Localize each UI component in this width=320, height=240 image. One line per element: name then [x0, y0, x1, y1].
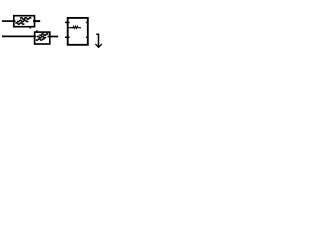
reactor L1 wave 1: [39, 34, 48, 36]
filter F1 wave 2: [17, 20, 28, 22]
wire from reactor output: [48, 36, 59, 38]
resistor R1 zigzag: [73, 26, 79, 28]
resistor R1 lead right: [78, 27, 81, 29]
reactor L1 wave 2: [37, 36, 46, 38]
reactor L1 box: [35, 32, 50, 44]
wire bottom input L: [2, 35, 36, 37]
pin tick top-right inside U1: [86, 21, 88, 23]
pin tick bottom-left of U1: [65, 36, 70, 38]
pin stub below F1 bottom edge: [29, 26, 31, 28]
reactor L1 wave 3: [36, 39, 44, 41]
filter F1 wave 1: [20, 18, 31, 20]
wire tick at arrow top: [96, 33, 99, 35]
pin tick bottom-right inside U1: [86, 36, 88, 38]
pin tick top-left of U1: [65, 21, 70, 23]
arrow down continuation: [98, 34, 100, 48]
filter F1 box: [14, 16, 35, 27]
resistor R1 lead left: [69, 27, 73, 29]
pin stub above L1 top edge: [36, 30, 38, 32]
converter U1 box: [68, 18, 88, 45]
filter F1 wave 3: [16, 23, 25, 25]
wire stub from F1 output: [33, 20, 40, 22]
arrowhead: [95, 44, 102, 47]
wire top input L: [2, 20, 16, 22]
